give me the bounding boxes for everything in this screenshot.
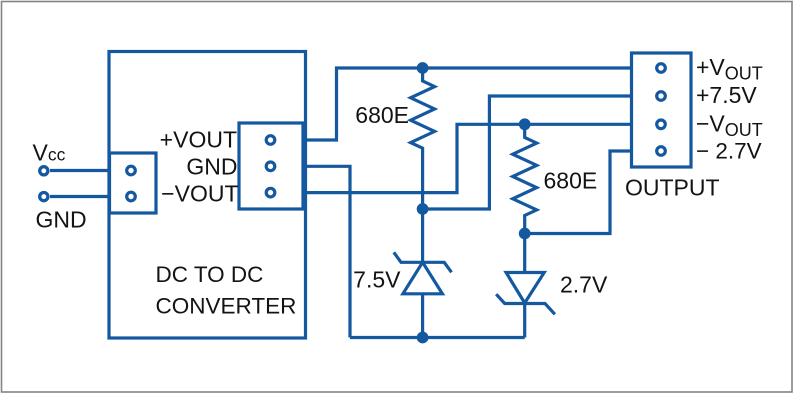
junction node: top rail / R1 xyxy=(417,62,429,74)
svg-text:2.7V: 2.7V xyxy=(560,272,608,298)
wire GND down to bottom rail xyxy=(303,166,350,337)
svg-text:+7.5V: +7.5V xyxy=(696,82,757,108)
svg-text:OUTPUT: OUTPUT xyxy=(625,175,720,201)
wire 2.7V tap to OUTPUT pin4 xyxy=(525,151,632,234)
svg-text:7.5V: 7.5V xyxy=(353,267,401,293)
resistor R2 680E xyxy=(513,124,537,233)
terminal GND xyxy=(40,193,48,201)
svg-text:GND: GND xyxy=(186,154,237,180)
wire 7.5V tap to OUTPUT pin2 xyxy=(423,96,632,209)
svg-text:− 2.7V: − 2.7V xyxy=(696,138,762,163)
terminal Vcc xyxy=(40,167,48,175)
svg-text:CONVERTER: CONVERTER xyxy=(156,294,297,319)
wire bottom rail xyxy=(350,336,525,339)
zener diode D1 7.5V xyxy=(394,209,452,338)
junction node: D1 anode / bottom rail xyxy=(417,332,429,344)
junction node: R1 bottom / D1 / 7.5V tap xyxy=(417,203,429,215)
wire GND to connector xyxy=(50,195,110,198)
wire +VOUT to top rail and OUTPUT pin1 xyxy=(303,68,632,140)
zener diode D2 2.7V xyxy=(496,234,555,338)
junction node: R2 bottom / D2 / 2.7V tap xyxy=(519,228,531,240)
dc-dc converter module box xyxy=(109,52,306,339)
svg-text:680E: 680E xyxy=(544,168,598,194)
svg-text:DC TO DC: DC TO DC xyxy=(156,262,264,287)
wire Vcc to connector xyxy=(50,169,110,172)
svg-text:−VOUT: −VOUT xyxy=(161,181,238,207)
input connector CON1 body xyxy=(110,153,157,213)
svg-text:GND: GND xyxy=(36,207,87,233)
resistor R1 680E xyxy=(411,68,435,209)
svg-text:680E: 680E xyxy=(355,102,409,128)
svg-text:+VOUT: +VOUT xyxy=(160,126,237,152)
junction node: R2 top / -VOUT wire xyxy=(519,118,531,130)
output header CON3 body xyxy=(632,53,692,167)
output connector CON2 body xyxy=(239,123,303,209)
wire -VOUT to OUTPUT pin3 xyxy=(303,124,632,192)
